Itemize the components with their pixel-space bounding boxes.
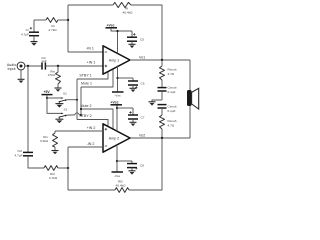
node -IN1 junction: [67, 19, 69, 21]
svg-text:C7: C7: [141, 115, 145, 119]
pin V- Amp2: [116, 145, 118, 172]
svg-text:S2: S2: [64, 107, 68, 111]
ground tap snubber midpoint: [152, 100, 162, 102]
resistor Rf2 46.4k bottom feedback: [115, 188, 129, 193]
capacitor Cin 1uF: [41, 62, 43, 69]
svg-text:4.7kΩ: 4.7kΩ: [49, 176, 58, 180]
ground under C8: [129, 170, 136, 172]
node input junction: [27, 65, 29, 67]
wire Vo1 output: [130, 59, 190, 61]
resistor Ri1 4.7k: [46, 18, 58, 23]
svg-text:+Vcc: +Vcc: [107, 23, 115, 27]
switch S1: [61, 97, 63, 99]
wire +5V to S1: [47, 97, 63, 99]
capacitor C7 bypass: [132, 108, 134, 115]
svg-text:1µF: 1µF: [41, 59, 47, 63]
wire S2 output with hop over STBY rail: [67, 114, 75, 116]
svg-text:STBY 1: STBY 1: [79, 74, 91, 78]
svg-text:Mute 2: Mute 2: [81, 104, 92, 108]
svg-text:Mute 1: Mute 1: [81, 82, 92, 86]
svg-text:-Vss: -Vss: [114, 174, 121, 178]
ground under Ci1: [31, 41, 38, 43]
op-amp U1 Amp 1: [103, 46, 130, 74]
wire -IN2 rail: [67, 147, 69, 190]
ground under C6: [130, 87, 137, 89]
svg-text:Vo1: Vo1: [139, 56, 145, 60]
ground under Rm: [52, 150, 59, 152]
wire Cin to +IN1: [45, 65, 103, 67]
wire Ci1 to Ri1: [34, 19, 46, 21]
wire jack to Cin: [25, 65, 42, 67]
wire +5V rail to S2: [47, 98, 63, 113]
node Mute2 junction: [80, 108, 82, 110]
node +5V junction: [46, 97, 48, 99]
svg-text:47kΩ: 47kΩ: [48, 73, 56, 77]
wire Mute2: [81, 109, 113, 129]
wire STBY1: [77, 71, 108, 79]
connector jack audio input: [17, 62, 25, 70]
svg-text:Amp 2: Amp 2: [109, 137, 119, 141]
svg-text:C8: C8: [140, 164, 144, 168]
wire Vo2 output: [130, 137, 190, 139]
svg-text:4.7kΩ: 4.7kΩ: [48, 28, 57, 32]
pin V+ Amp2: [116, 105, 118, 131]
capacitor Csnub1 0.1uF: [158, 87, 167, 89]
ground under C7: [130, 121, 137, 123]
svg-text:+IN 1: +IN 1: [87, 61, 96, 65]
svg-text:-IN 1: -IN 1: [86, 46, 94, 50]
wire top feedback rail: [68, 4, 113, 6]
svg-text:4.7Ω: 4.7Ω: [168, 72, 175, 76]
svg-text:Vo2: Vo2: [139, 133, 145, 137]
wire STBY rail vertical: [76, 79, 78, 120]
svg-text:C6: C6: [141, 81, 145, 85]
svg-text:46.4kΩ: 46.4kΩ: [123, 11, 134, 15]
svg-text:-Vss: -Vss: [114, 94, 121, 98]
resistor Rin 47k: [57, 66, 59, 72]
capacitor Csnub2 0.1uF: [158, 104, 167, 106]
capacitor C6 bypass: [132, 78, 134, 81]
resistor Rsnub1 4.7ohm: [161, 60, 163, 66]
wire bottom feedback: [68, 189, 115, 191]
svg-text:-IN 2: -IN 2: [87, 142, 95, 146]
ground under S2 contact: [58, 117, 60, 119]
op-amp U2 Amp 2: [103, 124, 130, 152]
node Rin junction: [57, 65, 59, 67]
resistor Rm 3.3k bias: [54, 131, 56, 133]
svg-text:0.1µF: 0.1µF: [168, 109, 176, 113]
pin V+ Amp1: [117, 31, 119, 53]
node S2 to Mute rail: [80, 114, 82, 116]
svg-text:+Vcc: +Vcc: [111, 100, 119, 104]
resistor Rf1 46.4k top feedback: [113, 2, 131, 7]
wire STBY2: [77, 120, 108, 127]
ground under C5: [129, 43, 136, 45]
svg-text:STBY 2: STBY 2: [79, 114, 91, 118]
wire -IN1 vertical rail: [67, 5, 69, 52]
wire -IN1 to amp: [68, 51, 103, 53]
resistor Ri2 4.7k: [44, 166, 58, 171]
svg-text:4.7Ω: 4.7Ω: [168, 123, 175, 127]
ground under jack: [20, 70, 22, 79]
svg-text:3.3kΩ: 3.3kΩ: [40, 139, 49, 143]
wire left input rail: [27, 66, 29, 152]
resistor Rsnub2 4.7ohm: [160, 115, 165, 129]
svg-text:+5V: +5V: [44, 90, 51, 94]
svg-text:Ci2: Ci2: [17, 149, 22, 153]
wire Mute rail vertical: [80, 87, 82, 115]
svg-text:S1: S1: [63, 92, 67, 96]
pin V- Amp1: [117, 65, 119, 92]
power flag -Vss Amp2: [112, 171, 124, 173]
svg-text:Amp 1: Amp 1: [109, 58, 119, 62]
wire +IN2: [55, 130, 103, 132]
capacitor Ci1 4.7uF: [33, 20, 35, 32]
ground under S1 contact: [58, 102, 60, 104]
power flag -Vss Amp1: [112, 91, 124, 93]
svg-text:46.4kΩ: 46.4kΩ: [116, 183, 127, 187]
capacitor C5 bypass: [131, 31, 133, 37]
svg-text:+IN 2: +IN 2: [87, 126, 96, 130]
wire Mute1: [81, 69, 113, 87]
ground under Rin: [55, 87, 62, 89]
svg-text:4.7µF: 4.7µF: [21, 32, 29, 36]
svg-text:C5: C5: [140, 37, 144, 41]
node -IN2 junction: [67, 167, 69, 169]
svg-text:Input: Input: [8, 67, 16, 71]
switch S2: [61, 113, 63, 115]
capacitor C8 bypass: [131, 161, 133, 163]
capacitor Ci2 4.7uF: [23, 151, 33, 153]
node S1 to STBY rail: [76, 99, 78, 101]
speaker: [189, 60, 191, 90]
svg-text:4.7µF: 4.7µF: [15, 153, 23, 157]
svg-text:0.1µF: 0.1µF: [168, 90, 176, 94]
